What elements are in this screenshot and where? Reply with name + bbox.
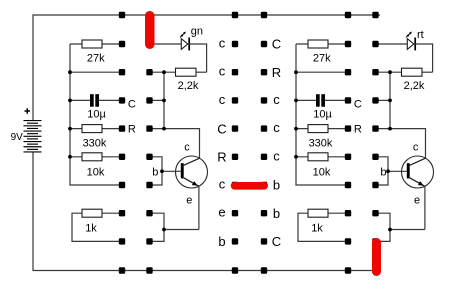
svg-text:330k: 330k [83,137,107,149]
svg-text:c: c [273,92,280,107]
wire: row 4 dot to collector of Q1 [150,129,200,159]
svg-text:c: c [184,141,190,153]
breadboard contact column 2 right half [372,12,378,274]
wire: +V bus vertical right half (rows 1-6) [296,44,348,185]
resistor R1d 1k [72,209,122,241]
battery plus sign [25,108,31,114]
node: bus junction row 4 right [294,127,298,131]
resistor R2c 10k [296,153,348,179]
svg-text:e: e [218,205,225,220]
svg-text:c: c [273,148,280,163]
svg-text:c: c [273,120,280,135]
red highlight wire: top rail to LED row (left) [145,11,155,49]
node: bus junction row 3 right [294,99,298,103]
node: collector junction row 2 right [388,70,392,74]
node: bus junction row 3 left [68,99,72,103]
wire: row 4 dot to collector of Q2 [376,129,426,159]
battery B1 9V [24,121,42,152]
wire: row 2 dot to 2,2k left [150,71,176,73]
svg-text:c: c [413,141,419,153]
svg-text:b: b [273,206,280,221]
svg-text:C: C [217,121,226,136]
wire: emitter net rows 7-8 left [150,186,199,241]
node: emitter junction left [162,228,166,232]
node: bus junction row 2 left [68,70,72,74]
resistor R1a 27k [70,40,122,65]
svg-text:b: b [273,178,280,193]
node: bus junction row 2 right [294,70,298,74]
wire: bottom ground rail [33,152,373,271]
svg-text:27k: 27k [313,53,331,65]
breadboard contact column 1 left half [119,12,125,274]
svg-text:b: b [152,167,158,179]
svg-text:c: c [219,92,226,107]
wire: base net rows 5-6 right [376,157,407,185]
svg-text:2,2k: 2,2k [404,80,425,92]
node: collector junction row 4 left [162,127,166,131]
red highlight wire: middle row 6 bridge [231,182,268,190]
wire: row 2 to base-column left [70,71,122,73]
svg-text:10k: 10k [87,167,105,179]
resistor R2e 2,2k [402,68,433,92]
wire: emitter net rows 7-8 right [376,186,425,241]
node: bus junction row 5 right [294,155,298,159]
node: collector junction row 4 right [388,127,392,131]
wire: row 3 dot to collector bus right [376,99,391,101]
transistor Q1 [176,156,208,188]
breadboard contact column 2 left half [146,12,152,274]
capacitor C1 10µ [70,94,122,120]
svg-text:V: V [16,132,23,143]
node: emitter junction right [388,228,392,232]
svg-text:e: e [186,194,192,206]
wire: top +V rail [33,15,380,121]
resistor R2a 27k [296,40,348,65]
svg-text:330k: 330k [309,137,333,149]
svg-text:C: C [272,234,281,249]
svg-text:b: b [380,167,386,179]
svg-text:10k: 10k [313,167,331,179]
node: base junction left [160,169,164,173]
resistor R1e 2,2k [176,68,207,92]
wire: +V bus vertical left half (rows 1-6) [70,44,122,185]
node: collector junction row 3 right [388,99,392,103]
node: bus junction row 4 left [68,127,72,131]
svg-text:R: R [217,150,226,165]
breadboard contact column 4 middle [261,12,267,274]
breadboard contact column 1 right half [345,12,351,274]
node: collector junction row 3 left [162,99,166,103]
svg-text:C: C [354,99,362,111]
resistor R1b 330k [70,125,122,150]
red highlight wire: row 8 to ground rail (right) [372,238,381,276]
node: collector junction row 2 left [162,70,166,74]
svg-text:R: R [354,123,362,135]
node: bus junction row 5 left [68,155,72,159]
wire: row 2 to base-column right [296,71,348,73]
svg-text:C: C [128,99,136,111]
svg-text:10µ: 10µ [87,108,106,120]
svg-text:1k: 1k [85,223,97,235]
wire: base net rows 5-6 left [150,157,181,185]
svg-text:c: c [219,177,226,192]
svg-text:C: C [272,37,281,52]
wire: row 3 dot to collector bus left [150,99,165,101]
svg-text:c: c [219,64,226,79]
svg-text:2,2k: 2,2k [178,80,199,92]
svg-text:R: R [272,65,281,80]
svg-text:10µ: 10µ [313,108,332,120]
transistor Q2 [402,156,434,188]
wire: row 2 dot to 2,2k right [376,71,402,73]
breadboard contact column 3 middle [232,12,238,274]
svg-text:1k: 1k [311,223,323,235]
svg-text:27k: 27k [87,53,105,65]
LED D1 gn [150,32,207,73]
resistor R1c 10k [70,153,122,179]
resistor R2b 330k [296,125,348,150]
svg-text:e: e [414,194,420,206]
svg-text:gn: gn [191,26,203,38]
resistor R2d 1k [298,209,348,241]
wire: collector bus vertical rows 2-4 left [163,72,165,128]
wire: collector bus vertical rows 2-4 right [389,72,391,128]
LED D2 rt [376,32,433,73]
svg-text:c: c [219,36,226,51]
svg-text:b: b [218,234,225,249]
svg-text:rt: rt [417,29,424,41]
svg-text:R: R [128,123,136,135]
capacitor C2 10µ [296,94,348,120]
node: base junction right [386,169,390,173]
